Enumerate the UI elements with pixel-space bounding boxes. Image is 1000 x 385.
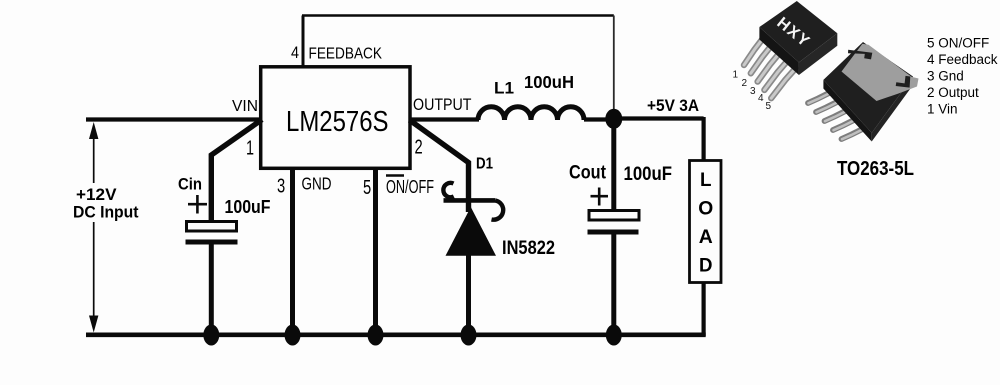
diode D1 schottky bar right hook [492, 201, 504, 220]
node switch output junction [605, 109, 622, 129]
svg-text:3 Gnd: 3 Gnd [927, 69, 964, 84]
wire diode to rail [466, 254, 471, 335]
photo: package back view body [823, 42, 913, 142]
node diode rail [461, 325, 477, 346]
photo: tab plastic mark top-left [848, 50, 872, 60]
wire VIN input [86, 117, 262, 121]
wire pin1 to Cin [211, 120, 262, 226]
svg-text:O: O [698, 199, 713, 220]
photo: tab plastic mark bottom-right [896, 76, 911, 88]
svg-text:4 Feedback: 4 Feedback [927, 52, 998, 67]
capacitor Cout top plate [589, 211, 639, 221]
photo: package back leads [808, 93, 863, 139]
svg-text:2: 2 [415, 137, 423, 159]
svg-text:ON/OFF: ON/OFF [386, 177, 434, 197]
photo: back heatsink tab [842, 44, 919, 101]
svg-text:D1: D1 [476, 155, 493, 172]
inductor L1 [478, 107, 584, 120]
svg-text:VIN: VIN [232, 98, 258, 115]
wire feedback right vertical [613, 16, 615, 113]
svg-text:A: A [699, 227, 713, 248]
node ONOFF rail [368, 325, 384, 346]
plus polarity Cin [188, 195, 207, 214]
svg-text:5 ON/OFF: 5 ON/OFF [927, 36, 989, 51]
svg-text:1 Vin: 1 Vin [927, 102, 958, 117]
svg-text:5: 5 [766, 101, 772, 112]
svg-text:100uF: 100uF [225, 196, 271, 217]
capacitor Cin top plate [187, 222, 237, 232]
capacitor Cin bottom plate [186, 240, 238, 245]
svg-text:Cout: Cout [569, 163, 607, 184]
svg-text:+12V: +12V [76, 186, 117, 204]
wire Cout to rail [611, 234, 616, 335]
diode D1 schottky bar [444, 198, 496, 203]
svg-text:L1: L1 [494, 79, 514, 98]
dimension arrowhead bottom [89, 316, 98, 333]
svg-text:Cin: Cin [178, 175, 202, 194]
svg-text:D: D [699, 256, 713, 277]
svg-text:L: L [700, 170, 712, 191]
svg-text:GND: GND [302, 173, 332, 193]
wire feedback top horizontal [302, 14, 614, 16]
svg-text:3: 3 [750, 86, 756, 97]
dimension arrow line [93, 130, 95, 325]
svg-text:3: 3 [277, 176, 285, 198]
svg-text:IN5822: IN5822 [502, 238, 555, 259]
svg-text:+5V 3A: +5V 3A [647, 96, 699, 115]
svg-text:TO263-5L: TO263-5L [837, 157, 914, 180]
svg-text:2 Output: 2 Output [927, 85, 979, 100]
wire pin5 ONOFF to rail [373, 169, 378, 336]
plus polarity Cout [591, 188, 609, 206]
overline for ON [386, 174, 404, 176]
bottom ground rail [86, 332, 706, 337]
wire pin3 GND to rail [290, 169, 295, 336]
svg-text:100uF: 100uF [624, 164, 673, 185]
svg-text:LM2576S: LM2576S [286, 106, 389, 138]
svg-text:5: 5 [363, 177, 371, 199]
svg-text:1: 1 [733, 70, 739, 81]
diode D1 triangle [446, 207, 497, 256]
capacitor Cout bottom plate [588, 230, 639, 235]
wire pin2 diagonal to D1 [410, 120, 469, 212]
wire feedback pin4 vertical [302, 16, 305, 68]
diode D1 schottky bar left hook [443, 183, 453, 197]
svg-text:OUTPUT: OUTPUT [413, 95, 472, 114]
load box [690, 161, 722, 283]
node Cin rail [203, 325, 219, 346]
wire node to Cout [611, 120, 616, 211]
wire Cin to rail [209, 244, 214, 335]
regulator U1 LM2576S body [261, 67, 410, 169]
svg-text:4: 4 [291, 44, 299, 62]
wire load to rail [701, 282, 705, 336]
dimension arrowhead top [89, 122, 98, 139]
svg-text:2: 2 [742, 78, 748, 89]
svg-text:DC Input: DC Input [73, 203, 139, 221]
photo: package front leads [744, 39, 796, 98]
wire inductor to node [584, 117, 614, 121]
photo: pin numbers 1-5 [733, 70, 772, 113]
wire right rail to load [701, 117, 705, 162]
svg-text:4: 4 [758, 93, 764, 104]
wire node to +5V rail [614, 116, 704, 120]
svg-text:FEEDBACK: FEEDBACK [309, 46, 383, 63]
photo: package front view body [759, 1, 837, 75]
node Cout rail [606, 325, 622, 346]
svg-text:100uH: 100uH [524, 72, 574, 92]
svg-text:1: 1 [246, 138, 254, 160]
wire output to inductor [409, 117, 479, 121]
node GND rail [285, 325, 301, 346]
